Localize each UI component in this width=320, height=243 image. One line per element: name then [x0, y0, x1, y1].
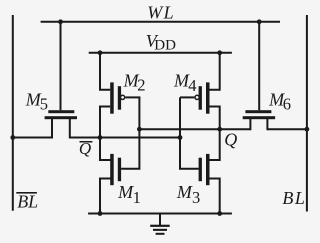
- svg-text:WL: WL: [147, 3, 175, 23]
- wire right inverter gates vertical: [179, 97, 181, 168]
- transistor M3 channel bar: [206, 154, 210, 185]
- transistor M1 gate bar: [118, 158, 121, 182]
- wire left inverter gates vertical: [138, 97, 140, 168]
- transistor M1 channel bar: [110, 154, 114, 185]
- svg-text:3: 3: [192, 188, 200, 207]
- label BLbar overline: [16, 192, 37, 194]
- transistor M2 PMOS gate bubble: [121, 95, 125, 99]
- wire VDD supply line: [89, 52, 232, 54]
- node dot Qbar line at right gates: [178, 135, 183, 140]
- transistor M4 channel bar: [206, 82, 210, 113]
- node dot Qbar: [98, 135, 103, 140]
- node dot Q line at left gates: [137, 127, 142, 132]
- wire M4 gate lead: [180, 96, 194, 98]
- ground bar 1: [150, 225, 170, 227]
- wire ground stub: [159, 214, 161, 226]
- wire M6 gate to WL: [258, 22, 260, 110]
- node dot VDD-M2: [98, 50, 103, 55]
- svg-text:DD: DD: [154, 38, 176, 54]
- wire Q line M6 to right rail: [267, 128, 307, 130]
- wire M6 source lead: [266, 119, 268, 130]
- transistor M5 gate bar: [48, 110, 74, 113]
- wire M3 source to ground rail: [208, 179, 219, 214]
- wire WL word line: [41, 21, 280, 23]
- label Qbar overline: [80, 141, 93, 143]
- node dot ground-M1: [98, 211, 103, 216]
- svg-text:M: M: [117, 182, 134, 202]
- wire M4 source to VDD: [210, 53, 220, 90]
- wire Q line left gates to M6: [139, 128, 250, 130]
- node dot VDD-M4: [217, 50, 222, 55]
- wire BL right bit-line rail: [306, 15, 308, 212]
- svg-text:5: 5: [40, 95, 48, 114]
- transistor M5 channel bar: [45, 116, 77, 119]
- wire ground rail: [88, 213, 232, 215]
- wire M5 source lead: [51, 119, 53, 139]
- transistor M2 channel bar: [110, 82, 114, 113]
- svg-text:6: 6: [283, 95, 291, 114]
- ground bar 3: [156, 233, 165, 235]
- wire Qbar line left rail to M5: [13, 137, 52, 139]
- transistor M4 gate bar: [199, 86, 202, 110]
- transistor M3 gate bar: [199, 158, 202, 182]
- svg-text:M: M: [176, 182, 193, 202]
- wire M5 gate to WL: [60, 22, 62, 110]
- ground bar 2: [153, 229, 167, 231]
- wire BLbar left bit-line rail: [12, 15, 14, 211]
- transistor M2 gate bar: [118, 86, 121, 110]
- transistor M4 PMOS gate bubble: [195, 95, 199, 99]
- svg-text:BL: BL: [17, 191, 38, 211]
- node dot WL-M5 gate: [58, 19, 63, 24]
- node dot BLbar-Qbar line: [10, 135, 15, 140]
- svg-text:1: 1: [133, 188, 141, 207]
- wire Qbar line M5 to right gates: [70, 137, 180, 139]
- svg-text:2: 2: [137, 76, 145, 95]
- wire M3 gate lead: [179, 168, 199, 170]
- svg-text:Q: Q: [79, 139, 91, 158]
- svg-text:Q: Q: [224, 129, 237, 149]
- wire M2 gate lead: [125, 96, 140, 98]
- node dot BL-Q line: [305, 127, 310, 132]
- wire M5 drain lead: [69, 119, 71, 139]
- node dot Q: [217, 127, 222, 132]
- wire M2 source to VDD: [100, 53, 110, 90]
- svg-text:4: 4: [188, 76, 196, 95]
- transistor M6 gate bar: [245, 110, 271, 113]
- wire M1 source to ground rail: [100, 179, 111, 214]
- transistor M6 channel bar: [243, 116, 275, 119]
- node dot ground-M3: [217, 211, 222, 216]
- svg-text:BL: BL: [282, 188, 306, 208]
- wire M1 gate lead: [121, 168, 140, 170]
- wire M2 drain to Qbar node: [100, 107, 111, 161]
- wire M4 drain to Q node: [208, 107, 219, 161]
- node dot WL-M6 gate: [257, 19, 262, 24]
- wire M6 drain lead: [249, 119, 251, 130]
